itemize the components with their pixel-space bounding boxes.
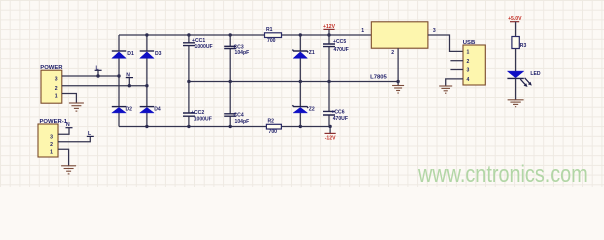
wire bottom rail right segment (281, 126, 330, 128)
connector POWER-1 (38, 119, 68, 157)
svg-text:D2: D2 (126, 107, 133, 113)
svg-text:1: 1 (55, 93, 58, 99)
zener Z1 (292, 35, 315, 82)
svg-text:Z1: Z1 (309, 50, 315, 56)
svg-text:2: 2 (50, 142, 53, 148)
svg-text:www.cntronics.com: www.cntronics.com (417, 160, 588, 187)
connector POWER (40, 65, 63, 103)
junction dot mid rail x189 (187, 80, 190, 83)
capacitor CC6 (323, 82, 348, 127)
wire LED to ground (515, 78, 517, 99)
junction dot wire2 / right leg (145, 84, 148, 87)
svg-text:R1: R1 (266, 27, 273, 33)
svg-text:470UF: 470UF (334, 47, 349, 53)
ground at USB pin4 (439, 86, 452, 93)
svg-text:Z2: Z2 (309, 106, 315, 112)
power flag -12V (325, 127, 337, 142)
capacitor CC5 (323, 35, 349, 82)
svg-text:R3: R3 (520, 43, 527, 49)
svg-text:2: 2 (467, 59, 470, 65)
LED LED1 (507, 71, 541, 79)
svg-text:3: 3 (433, 28, 436, 34)
resistor R1 (265, 27, 282, 44)
wire top rail left segment (119, 34, 265, 36)
wire mid rail (189, 81, 398, 83)
node N (top) (126, 73, 133, 86)
wire USB pin2 stub (450, 60, 463, 62)
LED emission arrows (520, 78, 532, 87)
resistor R2 (266, 119, 281, 136)
svg-text:700: 700 (269, 129, 278, 135)
ground at regulator (392, 86, 404, 94)
connector USB (463, 40, 486, 85)
ground at LED (508, 100, 524, 107)
junction dot N on wire (128, 84, 131, 87)
wire POWER-1 pin1 to ground (58, 149, 69, 166)
node N (bottom) (66, 122, 73, 128)
junction dot mid rail x329 (327, 80, 330, 83)
wire POWER-1 pin2 to L stub (58, 136, 90, 141)
svg-text:1: 1 (50, 150, 53, 156)
wire bridge right leg vertical (146, 35, 148, 127)
svg-text:470UF: 470UF (333, 116, 348, 122)
ground at POWER-1 pin1 (61, 166, 76, 174)
diode D2 (112, 107, 132, 113)
svg-text:D3: D3 (155, 51, 162, 57)
junction dot bottom rail x330 (328, 125, 331, 128)
power flag +12V (323, 24, 336, 35)
svg-text:USB: USB (463, 40, 475, 46)
svg-text:+CC1: +CC1 (192, 38, 205, 44)
capacitor CC2 (183, 82, 212, 127)
wire R3 to LED (515, 49, 517, 72)
capacitor CC1 (183, 35, 213, 82)
diode D1 (112, 51, 134, 58)
junction dot mid rail x398 (396, 80, 399, 83)
wire POWER pin3 to bridge left leg (62, 75, 119, 77)
junction dot bottom rail x189 (187, 125, 190, 128)
svg-text:POWER-1: POWER-1 (40, 119, 68, 125)
wire POWER pin2 to bridge right leg (62, 85, 147, 87)
svg-text:4: 4 (467, 77, 470, 83)
svg-text:3: 3 (50, 135, 53, 141)
power flag +5.0V (508, 16, 522, 36)
junction dot L on wire (96, 74, 99, 77)
wire regulator pin2 to mid rail (397, 48, 399, 81)
junction dot top rail x329 (327, 33, 330, 36)
svg-text:-12V: -12V (325, 136, 336, 142)
svg-text:3: 3 (467, 68, 470, 74)
svg-text:POWER: POWER (40, 65, 63, 71)
regulator U1 L7805 (370, 22, 428, 81)
junction dot bottom rail x230 (229, 125, 232, 128)
junction dot top rail x189 (187, 33, 190, 36)
wire bridge left leg vertical (118, 35, 120, 127)
svg-text:1: 1 (361, 28, 364, 34)
wire bottom rail left segment (119, 126, 266, 128)
junction dot top rail x147 (145, 33, 148, 36)
junction dot wire1 / left leg (117, 74, 120, 77)
svg-text:104pF: 104pF (235, 119, 250, 125)
diode D3 (140, 51, 162, 58)
diode D4 (140, 107, 161, 113)
svg-text:700: 700 (267, 38, 276, 44)
wire POWER-1 pin3 to N stub (58, 128, 69, 135)
wire POWER pin1 to ground (62, 94, 77, 104)
wire USB pin4 to ground (446, 79, 463, 86)
resistor R3 (512, 37, 527, 50)
wire top rail right segment (282, 34, 372, 36)
junction dot mid rail x230 (229, 80, 232, 83)
svg-text:D1: D1 (127, 51, 134, 57)
svg-text:CC4: CC4 (234, 113, 244, 119)
svg-text:1000UF: 1000UF (194, 117, 212, 123)
svg-text:LED: LED (530, 71, 541, 77)
wire USB pin3 stub (450, 69, 463, 71)
svg-text:D4: D4 (154, 107, 161, 113)
capacitor CC3 (224, 35, 249, 82)
ground at POWER pin1 (69, 103, 84, 111)
junction dot bottom rail x147 (145, 125, 148, 128)
capacitor CC4 (224, 82, 249, 127)
svg-text:+CC2: +CC2 (191, 110, 204, 116)
node L (bottom) (87, 131, 94, 137)
node L (top) (95, 65, 102, 76)
svg-text:1: 1 (467, 50, 470, 56)
svg-text:R2: R2 (268, 119, 275, 125)
svg-text:1000UF: 1000UF (195, 44, 213, 50)
wire regulator pin3 to USB pin1 (428, 35, 463, 51)
svg-text:+CC6: +CC6 (331, 109, 344, 115)
svg-text:+CC5: +CC5 (333, 39, 346, 45)
svg-text:2: 2 (55, 86, 58, 92)
wire regulator ground stub (397, 82, 399, 86)
svg-text:104pF: 104pF (235, 50, 250, 56)
zener Z2 (292, 82, 315, 127)
junction dot top rail x300 (299, 33, 302, 36)
junction dot top rail x230 (229, 33, 232, 36)
svg-text:2: 2 (391, 50, 394, 56)
svg-text:L7805: L7805 (370, 75, 387, 81)
junction dot bottom rail x300 (299, 125, 302, 128)
junction dot mid rail x300 (299, 80, 302, 83)
svg-text:3: 3 (55, 77, 58, 83)
